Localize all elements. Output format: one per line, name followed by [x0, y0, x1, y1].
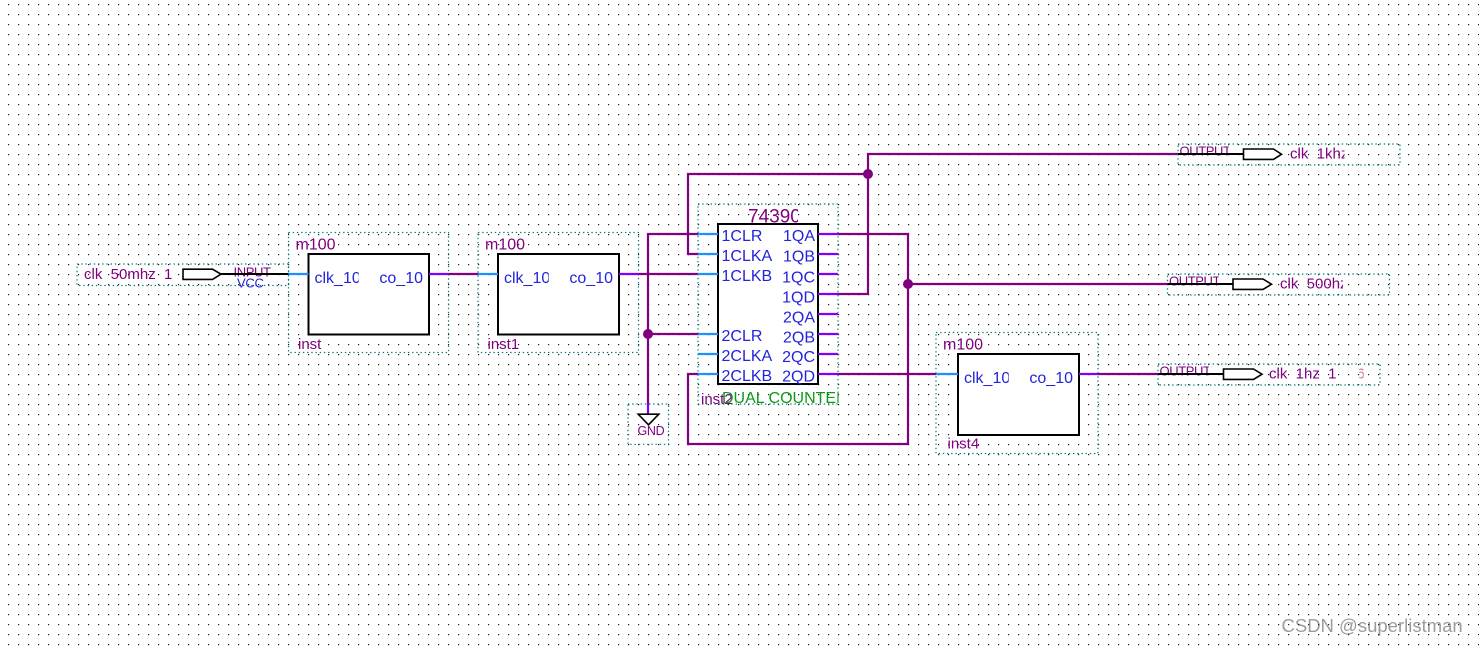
- wire to output flag clk_500hz (black): [1168, 283, 1234, 285]
- svg-text:2QC: 2QC: [782, 349, 815, 366]
- 74390 pin stub 2CLKA: [698, 353, 718, 355]
- wire to output flag clk_1hz (black): [1158, 373, 1224, 375]
- 74390 pin stub 2QB: [818, 333, 838, 335]
- svg-text:m100: m100: [485, 237, 525, 254]
- svg-text:2CLKB: 2CLKB: [722, 368, 773, 385]
- wire 1CLKA feedback riser: [688, 174, 868, 254]
- m100 U2 body: [498, 254, 619, 335]
- m100 U2 selection box: [478, 233, 639, 353]
- wire to output flag clk_1khz (black): [1178, 153, 1244, 155]
- svg-text:inst1: inst1: [488, 336, 520, 353]
- svg-text:2QD: 2QD: [782, 369, 815, 386]
- 74390 pin stub 1QC: [818, 273, 838, 275]
- wire 1QA to 2CLKB loop: [688, 234, 908, 444]
- svg-text:1QD: 1QD: [782, 290, 815, 307]
- m100 U1 body: [309, 254, 430, 335]
- wire 1QD to output clk_1khz: [838, 154, 1178, 294]
- 74390 U3 body: [718, 224, 818, 384]
- OUTPUT label clk_1khz: [1180, 144, 1232, 159]
- junction dot net clk_500hz: [903, 279, 913, 289]
- svg-text:1QC: 1QC: [782, 270, 815, 287]
- output pin clk_1hz selection box: [1158, 364, 1380, 385]
- junction dot GND net: [643, 329, 653, 339]
- svg-text:OUTPUT: OUTPUT: [1169, 274, 1221, 289]
- output pin name clk 500hz: [1280, 276, 1348, 293]
- 74390 pin label 2CLKB: [722, 368, 773, 385]
- wire inst4 to output clk_1hz: [1098, 373, 1158, 375]
- svg-text:2QA: 2QA: [783, 310, 815, 327]
- input pin clk_50mhz selection box: [77, 264, 289, 286]
- input pin flag symbol: [183, 269, 221, 279]
- OUTPUT label clk_500hz: [1169, 274, 1221, 289]
- svg-text:clk_10: clk_10: [964, 370, 1010, 387]
- svg-text:co_10: co_10: [379, 270, 423, 287]
- 74390 pin stub 1CLKA: [698, 253, 718, 255]
- 74390 pin stub 2QA: [818, 313, 838, 315]
- svg-text:clk 1hz 1: clk 1hz 1: [1269, 366, 1337, 383]
- m100 U4 output stub co_10: [1079, 373, 1098, 375]
- 74390 pin stub 1QA: [818, 233, 838, 235]
- OUTPUT label clk_1hz: [1160, 364, 1212, 379]
- svg-text:clk 500hz: clk 500hz: [1280, 276, 1348, 293]
- m100 U4 body: [958, 354, 1079, 435]
- 74390 U3 selection box: [698, 204, 838, 404]
- svg-text:1QB: 1QB: [783, 249, 815, 266]
- m100 U2 input stub clk_10: [478, 273, 498, 275]
- wire 2QD to inst4: [838, 373, 936, 375]
- output pin name clk 1khz: [1290, 146, 1348, 163]
- svg-text:2CLKA: 2CLKA: [722, 348, 773, 365]
- svg-text:GND: GND: [638, 424, 665, 438]
- svg-text:2QB: 2QB: [783, 330, 815, 347]
- m100 U1 output stub co_10: [429, 273, 449, 275]
- svg-text:inst4: inst4: [948, 436, 980, 453]
- output pin name clipped char: [1357, 366, 1365, 383]
- svg-text:1CLKB: 1CLKB: [722, 268, 773, 285]
- svg-text:1CLR: 1CLR: [722, 228, 763, 245]
- svg-text:clk 1khz: clk 1khz: [1290, 146, 1348, 163]
- svg-text:clk_10: clk_10: [315, 270, 361, 287]
- GND selection box: [628, 404, 669, 444]
- m100 U1 selection box: [289, 233, 449, 353]
- 74390 U3 title: [748, 207, 801, 228]
- svg-text:m100: m100: [943, 337, 983, 354]
- m100 U4 port clk_10: [964, 370, 1010, 387]
- svg-text:m100: m100: [296, 237, 336, 254]
- m100 U2 output stub co_10: [619, 273, 639, 275]
- output pin flag clk_500hz: [1233, 279, 1272, 289]
- 74390 pin stub 2QD: [818, 373, 838, 375]
- m100 U1 port clk_10: [315, 270, 361, 287]
- svg-text:OUTPUT: OUTPUT: [1160, 364, 1212, 379]
- svg-text:VCC: VCC: [237, 276, 264, 291]
- 74390 pin stub 1QB: [818, 253, 838, 255]
- ground symbol triangle: [638, 414, 659, 425]
- wire 2CLR branch: [648, 333, 698, 335]
- svg-text:2CLR: 2CLR: [722, 328, 763, 345]
- svg-text:clk 50mhz 1: clk 50mhz 1: [84, 266, 172, 283]
- output pin flag clk_1khz: [1244, 149, 1282, 159]
- svg-text:OUTPUT: OUTPUT: [1180, 144, 1232, 159]
- svg-text:1CLKA: 1CLKA: [722, 248, 773, 265]
- wire inst to inst1: [449, 273, 479, 275]
- m100 U4 input stub clk_10: [936, 373, 958, 375]
- 74390 pin label 1CLKB: [722, 268, 773, 285]
- svg-text:co_10: co_10: [569, 270, 613, 287]
- GND stub: [647, 404, 649, 414]
- 74390 pin stub 1CLR: [698, 233, 718, 235]
- m100 U2 port clk_10: [504, 270, 550, 287]
- 74390 DUAL COUNTER label: [722, 390, 848, 407]
- wire branch to output clk_500hz: [908, 283, 1168, 285]
- output pin clk_500hz selection box: [1168, 274, 1390, 295]
- wire inst1 to 1CLKB: [639, 273, 699, 275]
- svg-text:inst: inst: [298, 336, 322, 353]
- 74390 pin stub 2CLKB: [698, 373, 718, 375]
- wire 1CLR to GND net: [648, 234, 698, 404]
- svg-text:co_10: co_10: [1029, 370, 1073, 387]
- svg-text:1QA: 1QA: [783, 228, 815, 245]
- 74390 pin stub 1CLKB: [698, 273, 718, 275]
- 74390 pin stub 2QC: [818, 353, 838, 355]
- svg-text:clk_10: clk_10: [504, 270, 550, 287]
- output pin clk_1khz selection box: [1178, 144, 1400, 165]
- svg-text:DUAL COUNTER: DUAL COUNTER: [722, 390, 848, 407]
- junction dot net clk_1khz: [863, 169, 873, 179]
- output pin flag clk_1hz: [1224, 369, 1263, 379]
- m100 U4 selection box: [936, 333, 1098, 454]
- 74390 pin stub 2CLR: [698, 333, 718, 335]
- 74390 pin stub 1QD: [818, 293, 838, 295]
- wire input pin to symbol edge (black): [221, 273, 289, 275]
- m100 U1 input stub clk_10: [289, 273, 309, 275]
